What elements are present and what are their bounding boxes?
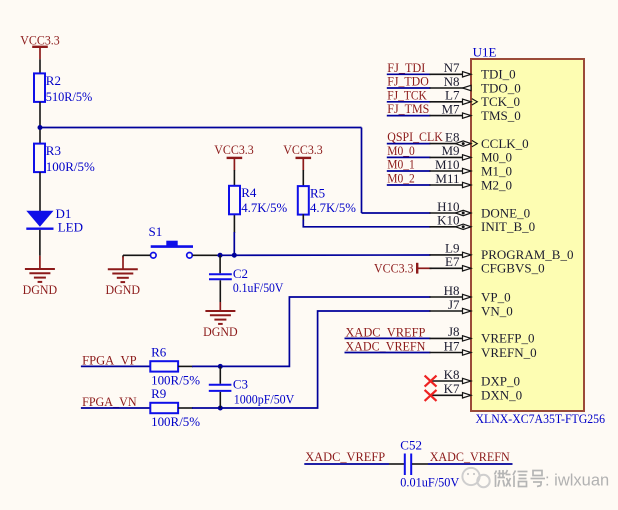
svg-text:XADC_VREFP: XADC_VREFP	[305, 449, 385, 464]
svg-text:510R/5%: 510R/5%	[46, 89, 93, 104]
svg-text:E8: E8	[445, 129, 459, 144]
wire S1 left terminal to ground	[123, 254, 150, 256]
power VCC3.3 (above R5)	[283, 142, 323, 170]
svg-text:0.01uF/50V: 0.01uF/50V	[400, 475, 460, 490]
pin M11 M2_0	[430, 171, 513, 193]
resistor R6	[150, 345, 200, 388]
capacitor C52	[389, 437, 460, 489]
svg-text:DGND: DGND	[203, 324, 238, 339]
power VCC3.3 (CFGBVS pin E7)	[374, 260, 432, 275]
svg-text:H7: H7	[444, 338, 460, 353]
net label FJ_TDO with wire	[387, 74, 431, 89]
svg-text:INIT_B_0: INIT_B_0	[481, 219, 535, 234]
net label FPGA_VN with wire	[81, 394, 150, 409]
svg-text:H8: H8	[444, 283, 460, 298]
ground DGND (below C2)	[203, 311, 238, 339]
resistor R3	[34, 143, 95, 174]
wire D1 to ground	[39, 230, 41, 256]
svg-text:LED: LED	[58, 220, 83, 235]
wire VCC to R5	[302, 170, 304, 186]
pin L7 TCK_0	[430, 88, 521, 110]
net label FJ_TMS with wire	[387, 101, 431, 116]
wire DONE net: to pin H10	[362, 212, 431, 214]
svg-text:VCC3.3: VCC3.3	[374, 260, 414, 275]
svg-text:M2_0: M2_0	[481, 177, 512, 192]
node junction R2/R3/DONE	[38, 125, 43, 130]
svg-text:R4: R4	[241, 185, 257, 200]
svg-text:VREFP_0: VREFP_0	[481, 331, 534, 346]
node junction C3 bottom	[218, 406, 223, 411]
wire VCC3.3 to R2	[39, 59, 41, 73]
resistor R4	[229, 185, 287, 215]
pin K8 DXP_0	[425, 367, 520, 389]
node junction C2 top	[218, 253, 223, 258]
svg-text:U1E: U1E	[473, 45, 497, 60]
wire DONE net: vertical	[361, 128, 363, 214]
svg-text:VN_0: VN_0	[481, 303, 513, 318]
svg-text:FPGA_VP: FPGA_VP	[82, 353, 137, 368]
pin K7 DXN_0	[425, 381, 523, 403]
svg-text:VREFN_0: VREFN_0	[481, 345, 537, 360]
net label XADC_VREFN (C52 right) with wire	[428, 449, 513, 464]
svg-text:: iwlxuan: : iwlxuan	[545, 472, 609, 490]
power VCC3.3 (top-left)	[20, 33, 60, 60]
svg-text:M0_1: M0_1	[387, 157, 415, 172]
node junction C3 top	[218, 364, 223, 369]
svg-text:VCC3.3: VCC3.3	[214, 142, 254, 157]
svg-text:4.7K/5%: 4.7K/5%	[241, 200, 287, 215]
net label QSPI_CLK with wire	[387, 129, 444, 144]
svg-text:C52: C52	[400, 437, 422, 452]
svg-text:XADC_VREFN: XADC_VREFN	[345, 339, 426, 354]
wire R4 bottom to junction	[233, 214, 235, 233]
svg-text:DGND: DGND	[23, 282, 58, 297]
svg-text:XADC_VREFN: XADC_VREFN	[430, 449, 511, 464]
FPGA chip U1E body	[471, 45, 584, 411]
svg-text:1000pF/50V: 1000pF/50V	[234, 392, 295, 407]
ground DGND (below D1)	[23, 269, 58, 297]
svg-text:CCLK_0: CCLK_0	[481, 136, 529, 151]
svg-text:4.7K/5%: 4.7K/5%	[310, 200, 356, 215]
resistor R9	[150, 386, 200, 429]
wire S1 right terminal / PROGRAM_B net	[193, 254, 219, 256]
svg-text:QSPI_CLK: QSPI_CLK	[387, 129, 443, 144]
svg-text:100R/5%: 100R/5%	[46, 159, 95, 174]
svg-text:R3: R3	[46, 143, 61, 158]
capacitor C2	[209, 255, 284, 295]
power VCC3.3 (above R4)	[214, 142, 254, 170]
svg-text:TDO_0: TDO_0	[481, 80, 521, 95]
svg-text:H10: H10	[437, 199, 459, 214]
pin N8 TDO_0	[430, 74, 521, 96]
svg-text:VCC3.3: VCC3.3	[283, 142, 323, 157]
svg-text:DXP_0: DXP_0	[481, 373, 520, 388]
svg-text:C2: C2	[233, 266, 248, 281]
pin K10 INIT_B_0	[430, 213, 536, 235]
resistor R5	[298, 186, 356, 216]
net label M0_2 with wire	[387, 171, 431, 186]
svg-text:M0_2: M0_2	[387, 171, 415, 186]
watermark text weixinhao: iwlxuan	[495, 470, 546, 487]
resistor R2	[34, 73, 92, 104]
wire R2 to R3 through node	[39, 102, 41, 144]
svg-text:S1: S1	[149, 224, 163, 239]
svg-text:100R/5%: 100R/5%	[151, 414, 200, 429]
svg-text:K7: K7	[444, 381, 460, 396]
wire R3 to D1	[39, 172, 41, 211]
svg-text:DXN_0: DXN_0	[481, 388, 522, 403]
pin H8 VP_0	[430, 283, 511, 305]
pin M10 M1_0	[430, 157, 513, 179]
svg-text:J7: J7	[448, 297, 460, 312]
watermark wechat icon	[462, 468, 489, 487]
pin M9 M0_0	[430, 143, 513, 165]
svg-text:M10: M10	[435, 157, 460, 172]
no-connect X on pin K7	[425, 390, 437, 401]
svg-text:DGND: DGND	[106, 282, 141, 297]
svg-text:R9: R9	[151, 386, 166, 401]
no-connect X on pin K8	[425, 376, 437, 387]
pin H10 DONE_0	[430, 199, 531, 221]
net label XADC_VREFP (C52 left) with wire	[304, 449, 389, 464]
svg-text:FJ_TDO: FJ_TDO	[387, 74, 429, 89]
pin N7 TDI_0	[430, 60, 516, 82]
svg-text:VP_0: VP_0	[481, 289, 511, 304]
net label FPGA_VP with wire	[81, 353, 150, 368]
svg-text:TMS_0: TMS_0	[481, 108, 521, 123]
svg-text:R2: R2	[46, 73, 61, 88]
net label XADC_VREFN with wire	[345, 339, 431, 354]
wire R9 to VN route	[178, 407, 193, 409]
svg-text:E7: E7	[445, 254, 460, 269]
svg-text:M1_0: M1_0	[481, 163, 512, 178]
pin E7 CFGBVS_0	[430, 254, 545, 276]
svg-text:J8: J8	[448, 324, 460, 339]
svg-text:DONE_0: DONE_0	[481, 205, 530, 220]
wire R5 to INIT_B net	[302, 214, 304, 220]
svg-text:CFGBVS_0: CFGBVS_0	[481, 261, 545, 276]
wire VCC to R4	[233, 170, 235, 186]
svg-text:K8: K8	[444, 367, 460, 382]
svg-text:K10: K10	[437, 213, 459, 228]
svg-text:C3: C3	[233, 377, 248, 392]
svg-text:FPGA_VN: FPGA_VN	[82, 394, 137, 409]
wire DONE net: horizontal from node	[40, 127, 362, 129]
pin L9 PROGRAM_B_0	[430, 241, 574, 263]
ground DGND (below S1)	[106, 269, 141, 297]
net label XADC_VREFP with wire	[345, 325, 431, 340]
svg-text:L7: L7	[445, 88, 460, 103]
svg-text:M11: M11	[435, 171, 459, 186]
net label FJ_TCK with wire	[387, 87, 431, 102]
pin J8 VREFP_0	[430, 324, 535, 346]
svg-text:R6: R6	[151, 345, 167, 360]
svg-text:N8: N8	[444, 74, 460, 89]
svg-text:100R/5%: 100R/5%	[151, 372, 200, 387]
svg-text:VCC3.3: VCC3.3	[20, 33, 60, 48]
wire R6 to VP route	[178, 365, 193, 367]
net label M0_0 with wire	[387, 143, 431, 158]
pin H7 VREFN_0	[430, 338, 537, 360]
svg-text:R5: R5	[310, 186, 325, 201]
pin E8 CCLK_0	[430, 129, 529, 151]
switch S1	[149, 224, 194, 258]
LED D1	[26, 206, 83, 235]
node junction R4 bottom	[232, 253, 237, 258]
pin J7 VN_0	[430, 297, 513, 319]
svg-text:TCK_0: TCK_0	[481, 94, 520, 109]
net label FJ_TDI with wire	[387, 60, 431, 75]
svg-text:XADC_VREFP: XADC_VREFP	[345, 325, 425, 340]
svg-text:0.1uF/50V: 0.1uF/50V	[233, 280, 284, 295]
net label M0_1 with wire	[387, 157, 431, 172]
wire C2 to ground	[219, 280, 221, 302]
svg-text:XLNX-XC7A35T-FTG256: XLNX-XC7A35T-FTG256	[476, 411, 606, 426]
svg-text:FJ_TMS: FJ_TMS	[387, 101, 429, 116]
capacitor C3	[209, 366, 295, 408]
svg-text:FJ_TCK: FJ_TCK	[387, 87, 427, 102]
pin M7 TMS_0	[430, 101, 521, 123]
svg-text:M7: M7	[441, 101, 460, 116]
